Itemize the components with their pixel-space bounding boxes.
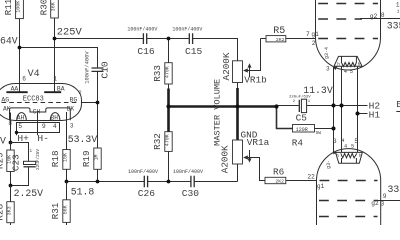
- svg-text:4: 4: [53, 123, 57, 130]
- svg-text:51.8: 51.8: [71, 186, 95, 197]
- svg-text:335: 335: [387, 21, 400, 32]
- svg-text:2K2: 2K2: [275, 179, 284, 185]
- svg-text:A200K: A200K: [221, 52, 232, 80]
- svg-text:3K3: 3K3: [7, 206, 13, 215]
- svg-text:V4: V4: [28, 69, 40, 80]
- svg-text:R29: R29: [0, 152, 6, 169]
- svg-text:E: E: [396, 100, 400, 110]
- svg-text:h: h: [337, 62, 340, 67]
- svg-text:R30: R30: [39, 0, 50, 15]
- svg-text:9: 9: [383, 193, 387, 200]
- svg-text:2: 2: [79, 90, 82, 96]
- svg-text:5: 5: [351, 143, 354, 149]
- svg-text:C26: C26: [138, 188, 156, 199]
- svg-text:MASTER VOLUME: MASTER VOLUME: [213, 79, 223, 146]
- svg-text:9: 9: [42, 123, 46, 130]
- svg-text:4: 4: [344, 69, 347, 75]
- svg-text:g2: g2: [371, 200, 379, 207]
- svg-text:225V: 225V: [57, 27, 83, 39]
- svg-text:VR1b: VR1b: [244, 74, 267, 85]
- svg-text:R18: R18: [50, 150, 61, 167]
- svg-text:CH: CH: [33, 108, 41, 115]
- svg-text:4: 4: [344, 143, 347, 149]
- svg-text:C5: C5: [296, 112, 308, 123]
- svg-text:H-: H-: [37, 133, 49, 144]
- svg-text:2K2: 2K2: [276, 37, 285, 43]
- svg-text:R4: R4: [292, 137, 304, 148]
- svg-text:22uF/25V: 22uF/25V: [36, 149, 41, 170]
- svg-text:335: 335: [388, 184, 400, 195]
- svg-text:R11: R11: [3, 0, 14, 15]
- svg-text:2: 2: [312, 40, 316, 47]
- svg-text:H1: H1: [369, 109, 381, 120]
- svg-text:100nF/400V: 100nF/400V: [172, 27, 202, 33]
- svg-text:11.3V: 11.3V: [303, 85, 333, 96]
- svg-text:BA: BA: [57, 85, 65, 92]
- svg-text:53.3V: 53.3V: [68, 134, 98, 145]
- svg-text:8: 8: [381, 12, 385, 19]
- svg-text:C10: C10: [100, 61, 111, 79]
- svg-text:5W: 5W: [316, 131, 322, 136]
- svg-text:R33: R33: [152, 65, 163, 82]
- svg-text:100nF/400V: 100nF/400V: [173, 169, 203, 175]
- svg-text:3: 3: [326, 65, 330, 72]
- svg-text:h: h: [336, 154, 339, 159]
- svg-text:R32: R32: [152, 133, 163, 150]
- svg-text:g2: g2: [370, 13, 378, 20]
- svg-text:470K: 470K: [165, 134, 171, 146]
- svg-text:R19: R19: [81, 150, 92, 167]
- svg-text:C16: C16: [137, 46, 155, 57]
- svg-text:5: 5: [18, 123, 22, 130]
- svg-text:AA: AA: [11, 85, 19, 92]
- svg-text:2.25V: 2.25V: [14, 188, 44, 199]
- svg-text:3: 3: [70, 123, 74, 130]
- svg-text:1: 1: [396, 2, 400, 9]
- svg-text:R6: R6: [273, 167, 285, 178]
- svg-text:h: h: [359, 154, 362, 159]
- svg-text:C15: C15: [185, 46, 203, 57]
- svg-text:C30: C30: [182, 188, 200, 199]
- svg-text:R28: R28: [0, 204, 6, 221]
- svg-text:22: 22: [307, 173, 315, 180]
- svg-text:BH: BH: [51, 114, 59, 121]
- svg-text:g3·4: g3·4: [324, 47, 330, 59]
- svg-text:6: 6: [22, 75, 26, 82]
- svg-text:g3·: g3·: [326, 160, 332, 169]
- svg-text:100nF/400V: 100nF/400V: [84, 51, 90, 84]
- svg-text:120R: 120R: [296, 127, 308, 133]
- svg-text:100nF/400V: 100nF/400V: [127, 27, 157, 33]
- svg-text:g1: g1: [311, 31, 319, 38]
- svg-text:V: V: [0, 136, 6, 147]
- svg-text:5: 5: [354, 138, 358, 145]
- svg-text:100nF/400V: 100nF/400V: [128, 169, 158, 175]
- svg-text:R31: R31: [50, 202, 61, 219]
- svg-text:AH: AH: [17, 114, 25, 121]
- svg-text:BG: BG: [70, 97, 78, 104]
- svg-text:h: h: [358, 62, 361, 67]
- svg-text:1: 1: [397, 9, 400, 14]
- svg-text:ECC83: ECC83: [23, 96, 44, 104]
- svg-text:VR1a: VR1a: [247, 137, 270, 148]
- svg-text:3: 3: [381, 200, 385, 207]
- svg-text:1M: 1M: [94, 154, 100, 160]
- svg-text:3: 3: [333, 138, 337, 145]
- svg-text:1: 1: [53, 75, 57, 82]
- svg-text:100K: 100K: [16, 1, 22, 13]
- svg-text:R5: R5: [273, 26, 285, 37]
- svg-text:A200K: A200K: [220, 145, 231, 173]
- svg-text:5: 5: [350, 69, 353, 75]
- svg-text:64V: 64V: [0, 35, 18, 46]
- svg-text:36K: 36K: [51, 2, 57, 11]
- svg-text:g1: g1: [317, 183, 325, 190]
- svg-text:AG: AG: [1, 97, 9, 104]
- svg-text:7: 7: [306, 31, 310, 38]
- svg-text:15K: 15K: [63, 153, 69, 162]
- svg-text:56K: 56K: [63, 205, 69, 214]
- svg-text:C23: C23: [10, 154, 21, 171]
- svg-text:470K: 470K: [165, 66, 171, 78]
